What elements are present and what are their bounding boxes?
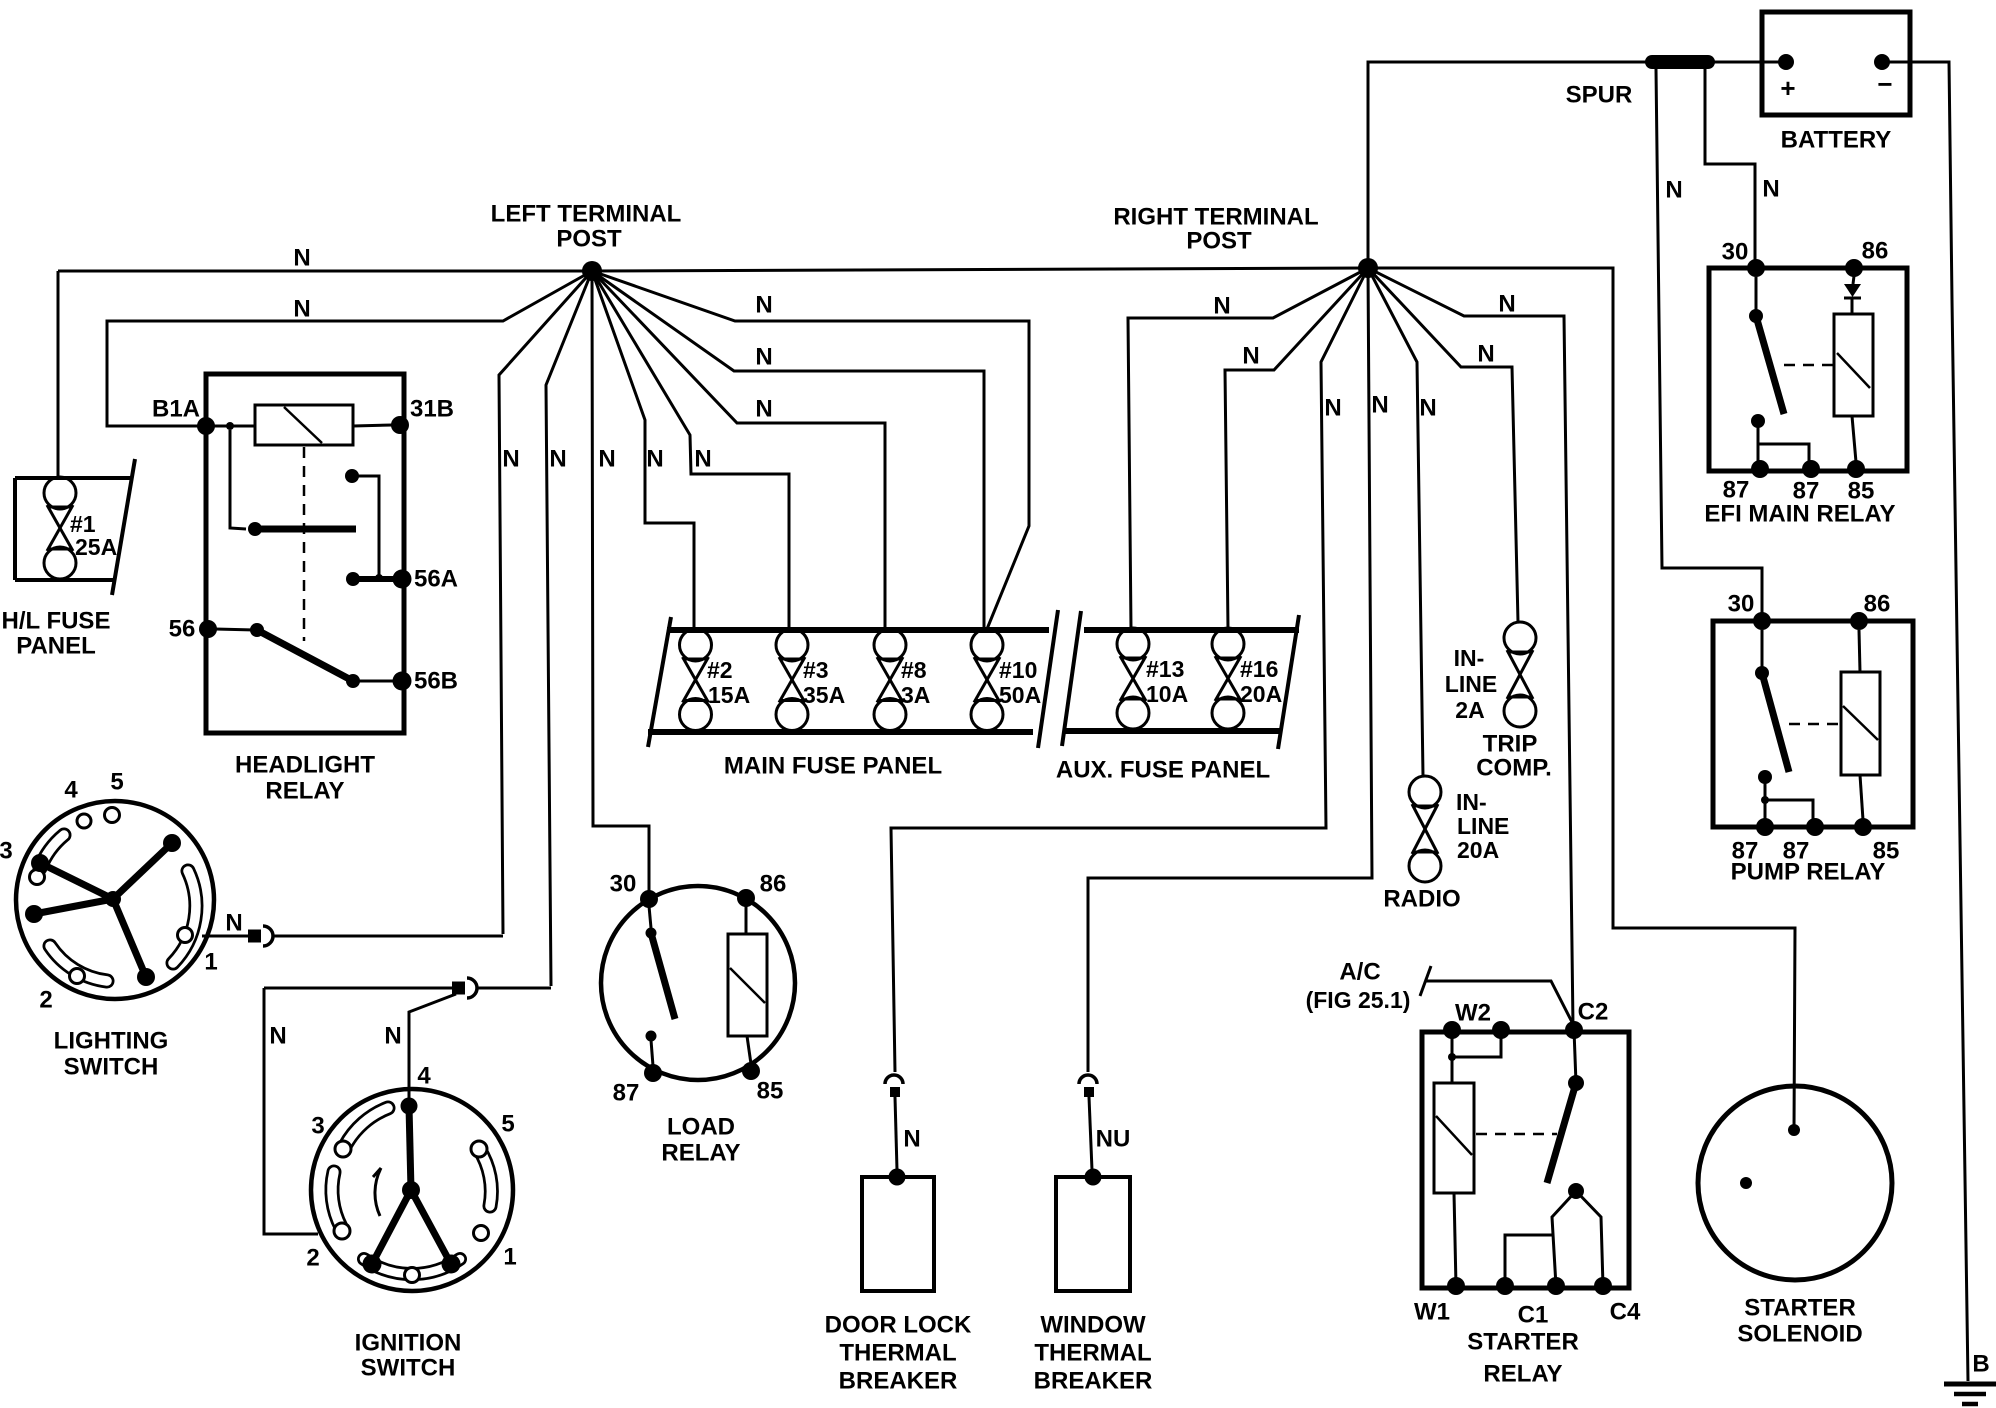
wire N: left post to load relay pin 30 (592, 271, 649, 893)
svg-text:86: 86 (1864, 591, 1891, 618)
svg-text:IN-: IN- (1454, 645, 1485, 671)
svg-text:2: 2 (39, 987, 52, 1014)
svg-text:N: N (1371, 392, 1388, 419)
starter relay switch contact (1574, 1030, 1576, 1083)
svg-text:N: N (293, 245, 310, 272)
pin 30 pump (1753, 612, 1771, 630)
svg-text:COMP.: COMP. (1476, 755, 1552, 782)
svg-text:RADIO: RADIO (1383, 886, 1460, 913)
wire: spur to battery positive (1708, 61, 1790, 64)
svg-text:N: N (549, 446, 566, 473)
svg-text:THERMAL: THERMAL (1034, 1340, 1151, 1367)
wire lighting switch to connector (202, 935, 248, 938)
wire main bus: left terminal post to right terminal post and left end (58, 268, 1368, 271)
svg-text:#8: #8 (901, 657, 927, 683)
dashed link EFI relay (1784, 364, 1834, 367)
svg-text:LOAD: LOAD (667, 1114, 735, 1141)
relay PUMP RELAY box (1713, 621, 1913, 827)
svg-text:4: 4 (64, 777, 78, 804)
starter solenoid circle (1698, 1086, 1892, 1280)
aux fuse panel top bar (1084, 627, 1299, 633)
wire N: left post to fuse #3 (592, 271, 789, 630)
svg-text:PANEL: PANEL (16, 633, 96, 660)
svg-text:AUX. FUSE PANEL: AUX. FUSE PANEL (1056, 757, 1270, 784)
diode EFI relay (1853, 276, 1854, 284)
svg-text:35A: 35A (803, 682, 845, 708)
svg-text:N: N (598, 446, 615, 473)
connector plug door lock (885, 1075, 903, 1084)
starter relay lower contact network (1568, 1183, 1584, 1199)
pin 87 pump left (1756, 818, 1774, 836)
svg-text:RELAY: RELAY (265, 778, 344, 805)
svg-text:POST: POST (1186, 228, 1252, 255)
svg-text:IGNITION: IGNITION (355, 1330, 462, 1357)
pin 87 EFI mid (1802, 460, 1820, 478)
ignition switch slot left (332, 1172, 341, 1227)
svg-text:N: N (903, 1126, 920, 1153)
pin B1A (197, 417, 215, 435)
node LEFT TERMINAL POST (582, 261, 602, 281)
lighting switch slot upper-left (40, 835, 64, 868)
svg-text:#2: #2 (707, 657, 733, 683)
svg-text:#13: #13 (1146, 656, 1184, 682)
pin C2 (1565, 1021, 1583, 1039)
svg-text:WINDOW: WINDOW (1040, 1312, 1146, 1339)
svg-text:N: N (1762, 176, 1779, 203)
dashed link headlight relay (303, 447, 306, 641)
svg-text:SPUR: SPUR (1566, 82, 1633, 109)
svg-text:LEFT TERMINAL: LEFT TERMINAL (491, 201, 682, 228)
wire N: left post to fuse #10 via jog (592, 271, 1029, 629)
dashed link starter relay (1476, 1133, 1557, 1136)
pin 86 pump (1850, 612, 1868, 630)
svg-text:BREAKER: BREAKER (1034, 1368, 1153, 1395)
svg-text:20A: 20A (1457, 837, 1499, 863)
wire N: right post to fuse #16 (1225, 268, 1368, 629)
pin 85 load relay (742, 1062, 760, 1080)
svg-text:W2: W2 (1455, 1000, 1491, 1027)
svg-text:N: N (1419, 395, 1436, 422)
pin 85 EFI (1847, 460, 1865, 478)
svg-text:C1: C1 (1518, 1302, 1549, 1329)
ignition switch slot upper-left (345, 1108, 388, 1146)
lighting switch slot right (173, 871, 196, 963)
pin C4 (1594, 1277, 1612, 1295)
connector plug ignition switch (452, 982, 465, 995)
wire N: left post to fuse #2 (592, 271, 694, 630)
wire ignition connector horizontal (264, 987, 452, 990)
headlight relay moving contact lower (215, 629, 257, 630)
fuse #16 20A (1212, 628, 1244, 660)
svg-text:N: N (1242, 343, 1259, 370)
pin 30 load relay (640, 890, 658, 908)
headlight relay fixed contact 56A (345, 469, 359, 483)
svg-text:C4: C4 (1610, 1299, 1641, 1326)
fuse #3 35A (776, 629, 808, 661)
pin 86 EFI (1845, 259, 1863, 277)
svg-text:N: N (293, 296, 310, 323)
svg-text:RELAY: RELAY (1483, 1361, 1562, 1388)
svg-text:EFI MAIN RELAY: EFI MAIN RELAY (1704, 501, 1895, 528)
svg-text:31B: 31B (410, 396, 454, 423)
fuse #1 25A (44, 477, 76, 509)
svg-text:PUMP RELAY: PUMP RELAY (1731, 859, 1886, 886)
breaker DOOR LOCK THERMAL BREAKER (889, 1169, 906, 1186)
svg-text:3: 3 (311, 1113, 324, 1140)
svg-text:N: N (1665, 177, 1682, 204)
pin 86 load relay (737, 889, 755, 907)
wire N: connector to ignition switch pin 4 (409, 994, 456, 1098)
svg-text:56A: 56A (414, 566, 458, 593)
svg-text:A/C: A/C (1339, 959, 1380, 986)
EFI relay switch contact (1755, 277, 1758, 316)
svg-text:N: N (646, 446, 663, 473)
svg-text:56B: 56B (414, 668, 458, 695)
wire: battery negative to ground B (1882, 62, 1968, 1381)
lighting switch position holes 4 5 (77, 814, 91, 828)
svg-text:THERMAL: THERMAL (839, 1340, 956, 1367)
battery B1 (1762, 12, 1910, 115)
svg-text:4: 4 (417, 1063, 431, 1090)
pin 30 EFI (1747, 259, 1765, 277)
svg-text:30: 30 (1722, 239, 1749, 266)
main fuse panel bottom bar (648, 729, 1033, 735)
svg-text:IN-: IN- (1456, 789, 1487, 815)
ignition switch slot holes (335, 1141, 351, 1157)
connector plug window (1079, 1075, 1097, 1084)
svg-text:SWITCH: SWITCH (361, 1355, 456, 1382)
node SPUR connector bar (1652, 55, 1708, 69)
svg-text:N: N (755, 396, 772, 423)
pin 87 EFI left (1751, 460, 1769, 478)
ignition switch rotor hub and spokes (409, 1106, 411, 1190)
svg-text:(FIG 25.1): (FIG 25.1) (1306, 987, 1411, 1013)
svg-text:50A: 50A (999, 682, 1041, 708)
svg-text:2A: 2A (1455, 697, 1484, 723)
svg-text:BATTERY: BATTERY (1781, 127, 1892, 154)
starter solenoid terminals (1788, 1124, 1800, 1136)
svg-text:N: N (694, 446, 711, 473)
svg-text:RIGHT TERMINAL: RIGHT TERMINAL (1113, 204, 1318, 231)
fuse #10 50A (971, 629, 1003, 661)
pin W1 (1447, 1277, 1465, 1295)
in-line fuse 2A trip computer (1504, 622, 1536, 654)
wire: right post to starter solenoid (1368, 268, 1795, 1130)
wire N: right post to window thermal breaker (1088, 268, 1372, 1072)
lighting switch rotor hub and spokes (113, 843, 172, 899)
headlight relay moving contact upper (230, 430, 246, 529)
svg-text:STARTER: STARTER (1467, 1329, 1579, 1356)
aux fuse panel left slant (1062, 611, 1081, 746)
svg-text:#10: #10 (999, 657, 1037, 683)
ground B (1944, 1382, 1996, 1387)
main fuse panel left slant (648, 617, 671, 747)
wire N: right post to radio in-line fuse (1368, 268, 1423, 776)
main fuse panel top bar (667, 627, 1049, 633)
wire N: right post to fuse #13 (1128, 268, 1368, 629)
svg-text:3A: 3A (901, 682, 930, 708)
svg-text:1: 1 (503, 1244, 516, 1271)
svg-text:#3: #3 (803, 657, 829, 683)
relay STARTER RELAY box (1422, 1032, 1629, 1288)
svg-text:5: 5 (110, 769, 123, 796)
svg-text:LINE: LINE (1445, 671, 1497, 697)
wire connector to door lock breaker (895, 1097, 897, 1170)
wire N: left post to ignition switch connector (546, 271, 592, 986)
svg-text:N: N (1213, 293, 1230, 320)
relay EFI MAIN RELAY box (1709, 268, 1907, 471)
svg-text:N: N (225, 910, 242, 937)
node RIGHT TERMINAL POST (1358, 258, 1378, 278)
svg-text:15A: 15A (708, 682, 750, 708)
pin 87 pump mid (1806, 818, 1824, 836)
H/L fuse panel outline (15, 476, 132, 480)
wire N: left post to lighting switch connector (499, 271, 592, 934)
ignition switch body circle (311, 1089, 513, 1291)
relay HEADLIGHT RELAY box (206, 374, 404, 733)
svg-text:STARTER: STARTER (1744, 1295, 1856, 1322)
wire N: left post to fuse #10 (592, 271, 984, 630)
relay LOAD RELAY circle (601, 886, 795, 1080)
ignition switch slot bottom band (364, 1259, 460, 1274)
svg-text:86: 86 (760, 871, 787, 898)
svg-text:SWITCH: SWITCH (64, 1054, 159, 1081)
pin 56 (199, 620, 217, 638)
svg-text:N: N (1498, 291, 1515, 318)
pump relay coil (1841, 672, 1880, 775)
svg-text:87: 87 (613, 1080, 640, 1107)
pump relay switch contact (1761, 630, 1764, 673)
lighting switch slot holes (30, 870, 45, 885)
wire: right post up and over to spur (1368, 62, 1648, 268)
breaker WINDOW THERMAL BREAKER (1085, 1169, 1102, 1186)
svg-text:86: 86 (1862, 238, 1889, 265)
wire A/C to starter relay C2 (1420, 966, 1431, 996)
aux fuse panel right slant (1278, 615, 1299, 749)
main fuse panel right slant (1038, 610, 1058, 748)
svg-text:N: N (755, 344, 772, 371)
svg-text:H/L FUSE: H/L FUSE (2, 608, 111, 635)
wire N: spur to pump relay pin 30 (1656, 69, 1762, 615)
pin 87 load relay (644, 1064, 662, 1082)
fuse #13 10A (1117, 628, 1149, 660)
svg-text:56: 56 (169, 616, 196, 643)
pin W2 (1443, 1021, 1461, 1039)
ignition switch slot right (479, 1149, 491, 1206)
svg-text:N: N (1477, 341, 1494, 368)
svg-text:LINE: LINE (1457, 813, 1509, 839)
svg-text:20A: 20A (1240, 681, 1282, 707)
svg-text:30: 30 (610, 871, 637, 898)
pin 31B (391, 416, 409, 434)
svg-text:W1: W1 (1414, 1299, 1450, 1326)
wire N: right post to trip computer in-line fuse (1368, 268, 1518, 622)
load relay coil (728, 934, 767, 1036)
svg-text:N: N (269, 1023, 286, 1050)
svg-text:2: 2 (306, 1245, 319, 1272)
svg-text:B: B (1972, 1351, 1989, 1378)
svg-text:HEADLIGHT: HEADLIGHT (235, 752, 375, 779)
wire N: left post to headlight relay B1A (107, 271, 592, 426)
wire N: main bus left end down to H/L fuse panel (57, 271, 60, 478)
aux fuse panel bottom bar (1064, 728, 1282, 734)
headlight relay coil (214, 425, 255, 428)
wire N: spur to EFI main relay pin 30 (1705, 69, 1755, 262)
svg-text:+: + (1780, 73, 1795, 103)
pin 85 pump (1854, 818, 1872, 836)
pin 56B (393, 672, 412, 691)
svg-text:B1A: B1A (152, 396, 200, 423)
svg-text:N: N (1324, 395, 1341, 422)
lighting switch body circle (16, 801, 214, 999)
ignition switch rotation arrow (375, 1168, 381, 1216)
EFI relay coil (1834, 314, 1873, 416)
wire N: right post to starter relay C2 (1368, 268, 1573, 1026)
load relay switch contact (649, 906, 651, 928)
svg-text:SOLENOID: SOLENOID (1737, 1321, 1862, 1348)
pin C1 (1496, 1277, 1514, 1295)
wire N: to ignition switch pin 2 (264, 988, 318, 1234)
wire N: right post to door lock thermal breaker (891, 268, 1368, 1072)
in-line fuse 20A radio (1409, 776, 1441, 808)
svg-text:85: 85 (757, 1078, 784, 1105)
connector plug lighting switch (248, 930, 261, 943)
starter relay coil (1451, 1030, 1454, 1083)
svg-text:NU: NU (1096, 1126, 1131, 1153)
wire N: left post to fuse #8 (592, 271, 885, 630)
svg-text:10A: 10A (1146, 681, 1188, 707)
svg-text:30: 30 (1728, 591, 1755, 618)
svg-text:N: N (502, 446, 519, 473)
svg-text:1: 1 (204, 949, 217, 976)
fuse #2 15A (680, 629, 712, 661)
svg-text:C2: C2 (1578, 999, 1609, 1026)
svg-text:N: N (755, 292, 772, 319)
pin W2 aux (1492, 1021, 1510, 1039)
pin 56A (393, 570, 412, 589)
pin C1 aux (1547, 1277, 1565, 1295)
svg-text:MAIN FUSE PANEL: MAIN FUSE PANEL (724, 753, 942, 780)
svg-text:25A: 25A (75, 534, 117, 560)
svg-text:#16: #16 (1240, 656, 1278, 682)
svg-text:LIGHTING: LIGHTING (54, 1028, 169, 1055)
fuse #8 3A (874, 629, 906, 661)
svg-text:5: 5 (501, 1111, 514, 1138)
svg-text:N: N (384, 1023, 401, 1050)
wire connector to window breaker (1089, 1097, 1092, 1170)
lighting switch slot lower-left (50, 946, 107, 981)
svg-text:DOOR LOCK: DOOR LOCK (825, 1312, 972, 1339)
svg-text:−: − (1877, 69, 1892, 99)
svg-text:TRIP: TRIP (1483, 731, 1538, 758)
svg-text:POST: POST (556, 226, 622, 253)
svg-text:RELAY: RELAY (661, 1140, 740, 1167)
dashed link pump relay (1789, 723, 1841, 726)
svg-text:BREAKER: BREAKER (839, 1368, 958, 1395)
svg-text:3: 3 (0, 838, 13, 865)
svg-text:87: 87 (1723, 477, 1750, 504)
wire connector to riser (274, 935, 503, 938)
